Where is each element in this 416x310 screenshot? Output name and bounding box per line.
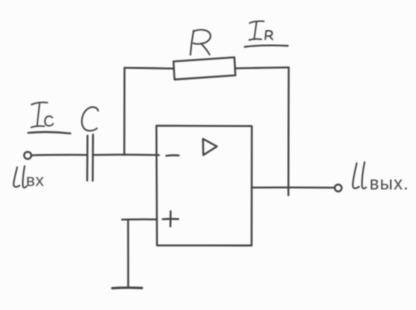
- wire input terminal to capacitor: [31, 154, 86, 156]
- label Uвых: [353, 162, 366, 188]
- wire ground vertical: [127, 220, 129, 288]
- op-amp gain triangle: [203, 139, 217, 155]
- op-amp inverting input minus sign: [166, 154, 179, 157]
- input terminal Uвх: [24, 152, 31, 159]
- svg-text:вых.: вых.: [370, 174, 410, 194]
- wire output: [252, 186, 334, 188]
- svg-text:вх: вх: [26, 171, 44, 190]
- resistor R: [174, 57, 236, 79]
- op-amp non-inverting input plus sign: [163, 211, 179, 226]
- label R: [190, 30, 210, 55]
- ground: [112, 287, 142, 290]
- op-amp U1: [156, 126, 251, 246]
- label IR: [245, 21, 288, 47]
- label Ic: [28, 102, 70, 133]
- label C: [82, 107, 98, 131]
- label Uвх: [14, 166, 27, 188]
- wire top horizontal to resistor: [125, 67, 174, 70]
- capacitor C: [87, 135, 93, 181]
- wire feedback tap vertical: [123, 68, 125, 155]
- wire resistor to feedback corner: [236, 66, 289, 69]
- output terminal Uвых: [335, 185, 342, 192]
- wire non-inverting input to ground branch: [122, 218, 157, 220]
- wire capacitor to inverting input: [93, 154, 159, 156]
- wire feedback vertical down to output node: [287, 67, 289, 195]
